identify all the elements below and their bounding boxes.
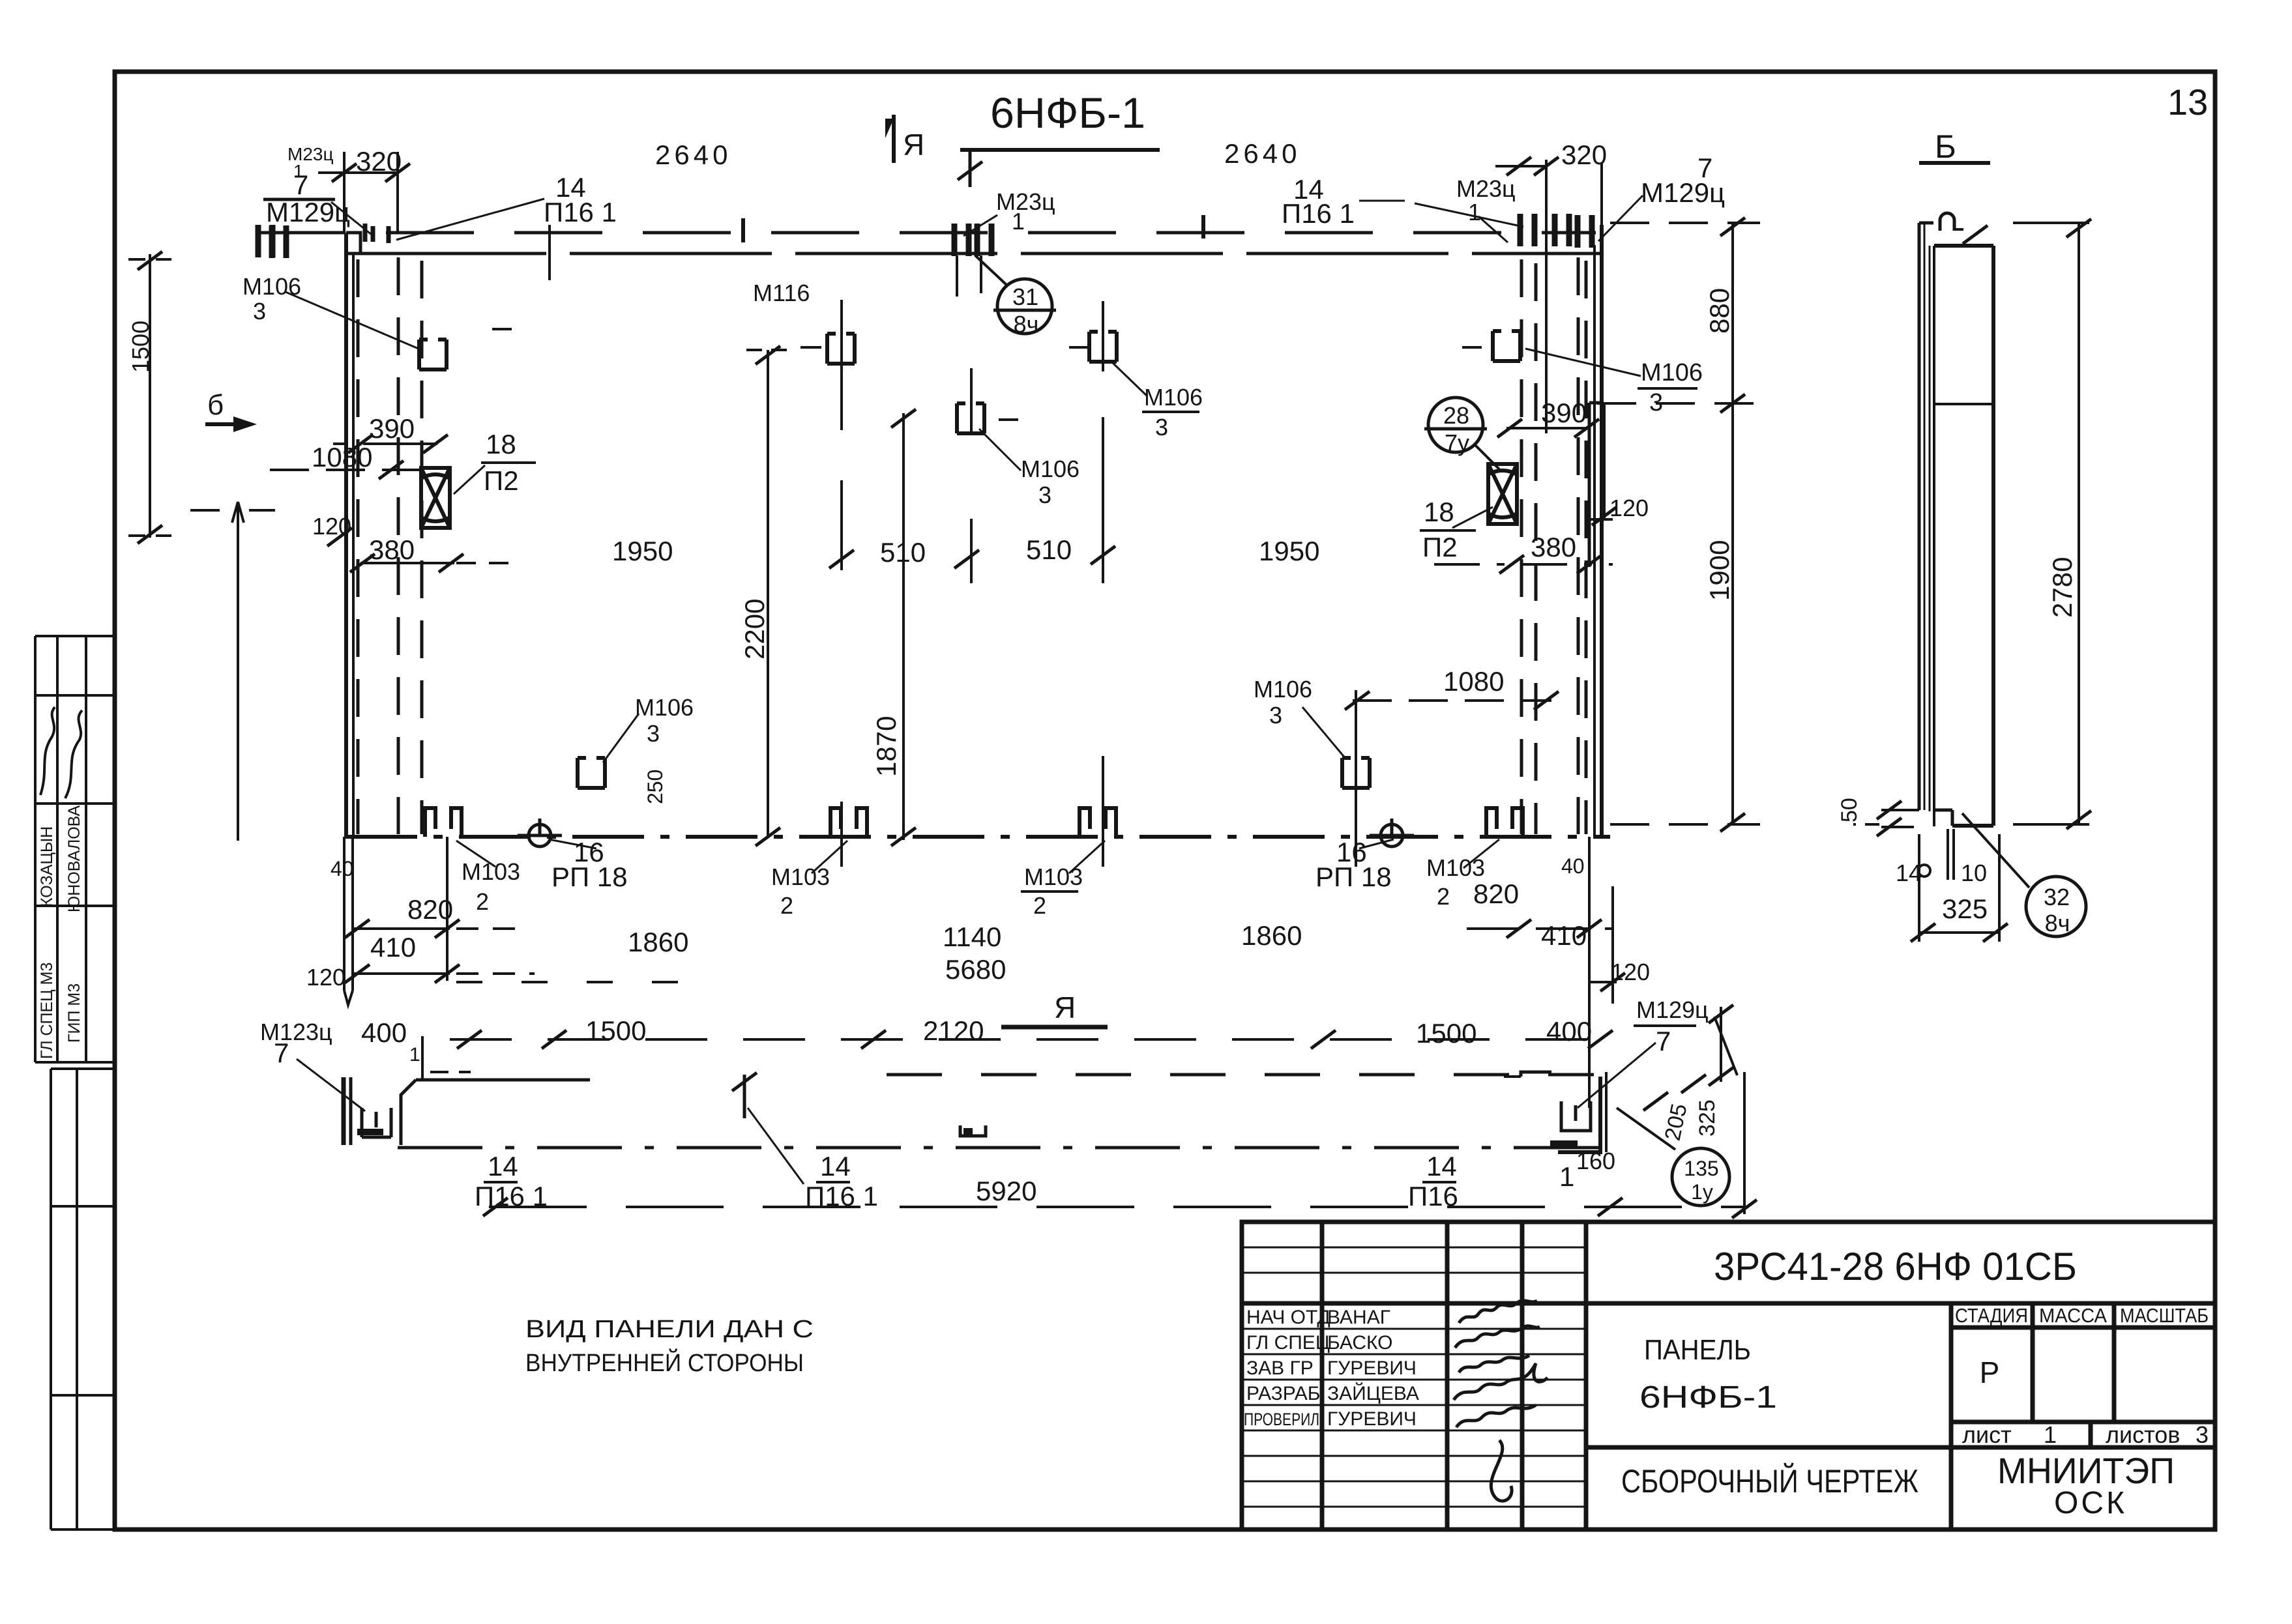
svg-text:лист: лист: [1962, 1421, 2012, 1448]
svg-text:РП 18: РП 18: [1315, 862, 1392, 892]
svg-text:40: 40: [331, 857, 354, 880]
svg-text:2: 2: [780, 892, 793, 919]
svg-text:СТАДИЯ: СТАДИЯ: [1955, 1304, 2028, 1327]
svg-text:М106: М106: [1021, 456, 1080, 482]
svg-text:14: 14: [1426, 1151, 1457, 1182]
svg-text:ГИП М3: ГИП М3: [65, 983, 83, 1043]
svg-text:5680: 5680: [945, 954, 1006, 985]
svg-text:П16: П16: [1408, 1181, 1458, 1211]
svg-text:1: 1: [1012, 208, 1025, 235]
svg-text:1500: 1500: [1416, 1018, 1477, 1049]
svg-text:6НФБ-1: 6НФБ-1: [990, 89, 1145, 137]
svg-text:ВИД ПАНЕЛИ ДАН С: ВИД ПАНЕЛИ ДАН С: [525, 1316, 814, 1343]
svg-text:7: 7: [274, 1037, 289, 1068]
svg-text:ПАНЕЛЬ: ПАНЕЛЬ: [1644, 1334, 1751, 1366]
svg-text:1: 1: [1559, 1161, 1574, 1192]
svg-text:Б: Б: [1935, 128, 1956, 165]
svg-text:М106: М106: [1254, 676, 1312, 703]
svg-text:3: 3: [2196, 1421, 2209, 1448]
svg-text:П16 1: П16 1: [544, 197, 617, 227]
svg-text:250: 250: [643, 770, 667, 804]
svg-text:М106: М106: [635, 694, 694, 721]
svg-text:М129ц: М129ц: [1641, 177, 1725, 208]
svg-text:ГУРЕВИЧ: ГУРЕВИЧ: [1327, 1408, 1417, 1430]
svg-text:1500: 1500: [585, 1015, 646, 1046]
svg-text:13: 13: [2167, 81, 2208, 123]
svg-text:М106: М106: [242, 273, 301, 300]
svg-text:3: 3: [1155, 414, 1168, 441]
svg-text:РП 18: РП 18: [551, 862, 628, 892]
svg-text:3: 3: [253, 298, 266, 325]
svg-text:14: 14: [1896, 860, 1922, 886]
svg-text:1080: 1080: [312, 442, 372, 472]
svg-text:120: 120: [312, 513, 351, 540]
svg-text:М103: М103: [1024, 863, 1083, 890]
svg-text:410: 410: [370, 932, 416, 963]
svg-text:1080: 1080: [1443, 666, 1504, 697]
svg-text:120: 120: [1611, 959, 1650, 985]
svg-text:СБОРОЧНЫЙ ЧЕРТЕЖ: СБОРОЧНЫЙ ЧЕРТЕЖ: [1621, 1462, 1918, 1500]
svg-text:32: 32: [2044, 884, 2070, 910]
svg-text:1: 1: [2044, 1421, 2057, 1448]
svg-text:М106: М106: [1641, 359, 1703, 386]
svg-text:МАССА: МАССА: [2039, 1304, 2107, 1327]
svg-text:М129ц: М129ц: [266, 197, 350, 227]
svg-text:РАЗРАБ: РАЗРАБ: [1246, 1383, 1321, 1404]
svg-text:Р: Р: [1980, 1356, 2000, 1389]
svg-text:М23ц: М23ц: [1456, 175, 1516, 202]
svg-text:18: 18: [1424, 497, 1454, 527]
svg-text:10: 10: [1961, 860, 1987, 886]
svg-text:П16 1: П16 1: [1282, 198, 1355, 229]
svg-text:3: 3: [1038, 482, 1051, 508]
svg-text:2200: 2200: [739, 599, 770, 660]
svg-text:М103: М103: [1426, 854, 1485, 881]
svg-text:320: 320: [356, 146, 402, 177]
svg-text:325: 325: [1695, 1099, 1720, 1137]
svg-text:2: 2: [1437, 883, 1450, 910]
svg-text:400: 400: [361, 1017, 407, 1048]
svg-text:6НФБ-1: 6НФБ-1: [1639, 1380, 1777, 1415]
svg-text:П2: П2: [484, 465, 519, 496]
svg-text:7: 7: [1656, 1026, 1671, 1056]
svg-text:18: 18: [486, 429, 516, 459]
svg-text:2780: 2780: [2047, 557, 2078, 618]
svg-text:120: 120: [306, 964, 345, 991]
svg-text:390: 390: [369, 413, 415, 444]
svg-text:П16 1: П16 1: [475, 1181, 548, 1211]
svg-text:2: 2: [476, 888, 489, 915]
svg-text:М123ц: М123ц: [260, 1019, 332, 1045]
svg-text:ЮНОВАЛОВА: ЮНОВАЛОВА: [65, 805, 83, 912]
svg-text:3: 3: [647, 720, 660, 747]
svg-text:325: 325: [1942, 893, 1988, 924]
svg-text:5920: 5920: [976, 1176, 1036, 1206]
svg-text:8ч: 8ч: [1014, 311, 1039, 338]
svg-text:3: 3: [1649, 389, 1663, 416]
svg-text:МАСШТАБ: МАСШТАБ: [2120, 1304, 2209, 1327]
svg-text:3РС41-28 6НФ 01СБ: 3РС41-28 6НФ 01СБ: [1714, 1245, 2077, 1288]
svg-text:320: 320: [1561, 139, 1607, 170]
svg-text:П2: П2: [1422, 532, 1458, 562]
svg-text:ГУРЕВИЧ: ГУРЕВИЧ: [1327, 1357, 1417, 1379]
svg-text:380: 380: [369, 534, 415, 565]
svg-text:1: 1: [1468, 199, 1481, 225]
svg-text:160: 160: [1576, 1148, 1615, 1174]
svg-text:листов: листов: [2106, 1421, 2180, 1448]
svg-text:б: б: [207, 389, 224, 421]
svg-text:2640: 2640: [1224, 138, 1300, 169]
svg-text:КОЗАЦЫН: КОЗАЦЫН: [38, 826, 56, 907]
svg-text:7у: 7у: [1445, 429, 1469, 456]
svg-text:880: 880: [1704, 288, 1735, 334]
svg-text:МНИИТЭП: МНИИТЭП: [1997, 1450, 2175, 1491]
svg-text:М116: М116: [753, 280, 810, 306]
svg-text:3: 3: [1269, 702, 1282, 729]
svg-text:1: 1: [293, 161, 304, 181]
svg-text:П16 1: П16 1: [805, 1181, 878, 1211]
svg-text:ВАНАГ: ВАНАГ: [1327, 1307, 1390, 1328]
svg-text:2: 2: [1033, 892, 1046, 919]
svg-text:1140: 1140: [943, 921, 1001, 952]
svg-text:40: 40: [1561, 854, 1585, 878]
svg-text:М103: М103: [771, 863, 830, 890]
svg-text:1900: 1900: [1704, 540, 1735, 601]
svg-text:ЗАВ ГР: ЗАВ ГР: [1246, 1357, 1314, 1379]
svg-text:120: 120: [1609, 495, 1649, 521]
svg-text:390: 390: [1541, 398, 1587, 428]
svg-text:135: 135: [1684, 1157, 1718, 1180]
svg-text:М103: М103: [462, 858, 520, 885]
svg-text:510: 510: [1026, 534, 1072, 565]
svg-text:1: 1: [409, 1044, 420, 1066]
svg-text:1950: 1950: [612, 536, 673, 566]
svg-text:14: 14: [488, 1151, 518, 1182]
svg-text:2120: 2120: [923, 1015, 984, 1046]
svg-text:410: 410: [1541, 920, 1587, 951]
svg-text:820: 820: [1473, 878, 1519, 909]
svg-text:31: 31: [1012, 283, 1038, 310]
svg-text:Я: Я: [1054, 991, 1076, 1024]
svg-text:14: 14: [820, 1151, 851, 1182]
svg-text:ПРОВЕРИЛ: ПРОВЕРИЛ: [1244, 1410, 1319, 1429]
svg-text:М23ц: М23ц: [996, 188, 1055, 215]
svg-text:380: 380: [1531, 532, 1576, 562]
svg-text:М129ц: М129ц: [1636, 996, 1709, 1023]
svg-text:1950: 1950: [1259, 536, 1319, 566]
svg-text:1у: 1у: [1691, 1180, 1713, 1204]
svg-text:28: 28: [1443, 402, 1469, 429]
svg-text:1500: 1500: [127, 321, 154, 373]
svg-text:1860: 1860: [628, 927, 688, 957]
svg-text:1860: 1860: [1241, 920, 1302, 951]
svg-text:820: 820: [407, 894, 453, 925]
svg-text:1870: 1870: [871, 716, 902, 777]
svg-text:ОСК: ОСК: [2054, 1486, 2127, 1520]
svg-text:8ч: 8ч: [2045, 910, 2070, 936]
svg-text:НАЧ ОТД: НАЧ ОТД: [1246, 1307, 1330, 1328]
svg-text:М106: М106: [1144, 384, 1203, 411]
svg-text:50: 50: [1837, 798, 1862, 822]
svg-text:2640: 2640: [655, 139, 731, 170]
svg-text:ГЛ СПЕЦ: ГЛ СПЕЦ: [1246, 1332, 1330, 1354]
svg-text:ВНУТРЕННЕЙ СТОРОНЫ: ВНУТРЕННЕЙ СТОРОНЫ: [525, 1348, 804, 1377]
svg-text:Я: Я: [903, 128, 924, 162]
svg-text:510: 510: [880, 537, 926, 568]
svg-text:ГЛ СПЕЦ М3: ГЛ СПЕЦ М3: [38, 963, 56, 1059]
svg-text:БАСКО: БАСКО: [1327, 1332, 1393, 1354]
svg-text:ЗАЙЦЕВА: ЗАЙЦЕВА: [1327, 1382, 1419, 1404]
svg-text:400: 400: [1546, 1016, 1592, 1047]
